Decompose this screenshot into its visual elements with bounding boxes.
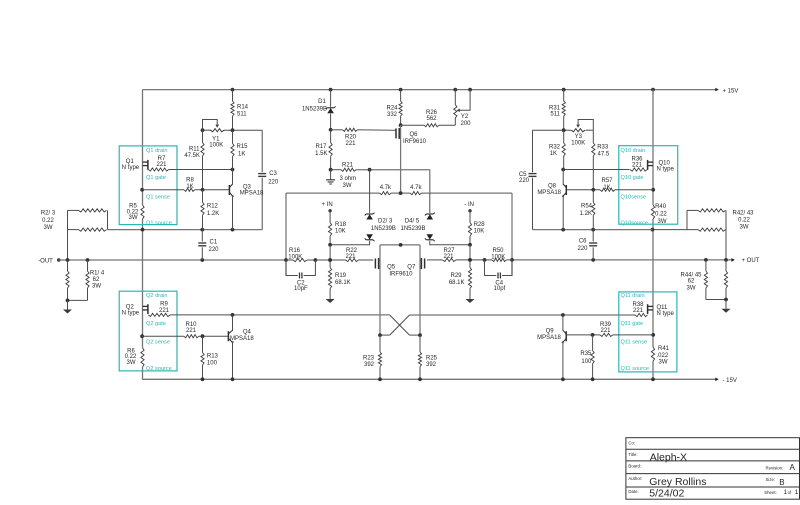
svg-text:R12: R12 <box>207 204 219 210</box>
resistor R20 <box>343 128 358 131</box>
label Q10 sense <box>621 194 647 200</box>
svg-text:Size:: Size: <box>766 477 776 482</box>
label R15 <box>237 144 249 157</box>
svg-text:D1: D1 <box>318 99 326 105</box>
svg-text:R42/ 43: R42/ 43 <box>732 210 754 216</box>
svg-text:221: 221 <box>633 308 644 314</box>
svg-text:68.1K: 68.1K <box>335 280 351 286</box>
svg-text:100: 100 <box>207 361 218 367</box>
transistor Q6 <box>396 125 401 193</box>
label 4.7k left <box>380 185 392 191</box>
label R9 <box>159 302 170 315</box>
svg-text:1K: 1K <box>186 184 193 190</box>
svg-text:R1/ 4: R1/ 4 <box>90 271 105 277</box>
node -15V label <box>723 378 737 384</box>
wire diff pair frame <box>380 243 420 335</box>
ground right output <box>722 309 731 313</box>
resistor R4 (R1/4 right) <box>86 260 89 300</box>
svg-text:R25: R25 <box>426 356 438 362</box>
svg-text:R13: R13 <box>207 354 219 360</box>
ground left output <box>63 310 72 314</box>
svg-text:221: 221 <box>345 141 356 147</box>
node +OUT <box>731 258 759 264</box>
svg-text:R39: R39 <box>600 322 612 328</box>
label R7 <box>156 156 167 168</box>
wire -15V rail <box>142 378 719 382</box>
resistor R57 <box>600 188 615 191</box>
svg-text:221: 221 <box>186 328 197 334</box>
svg-text:1N5239B: 1N5239B <box>400 226 425 232</box>
svg-text:R57: R57 <box>601 178 613 184</box>
label R16 <box>288 248 302 261</box>
label Q10 N type <box>657 161 675 173</box>
svg-text:R44/ 45: R44/ 45 <box>680 272 702 278</box>
resistor R42 (R42/43 top) <box>698 209 726 212</box>
svg-text:68.1K: 68.1K <box>449 280 465 286</box>
svg-text:1K: 1K <box>550 151 557 157</box>
svg-text:1N5239B: 1N5239B <box>371 226 396 232</box>
label R23 <box>363 356 375 368</box>
svg-text:1K: 1K <box>238 151 245 157</box>
resistor R28 <box>468 211 472 247</box>
resistor R6 <box>141 348 144 367</box>
transistor Q3 <box>229 170 234 230</box>
label D2/3 <box>371 218 396 232</box>
svg-text:Q1 source: Q1 source <box>146 220 172 226</box>
resistor R2 (R2/3 top) <box>79 209 107 212</box>
label Q1 N type <box>122 159 140 171</box>
svg-text:0.22: 0.22 <box>738 217 750 223</box>
svg-text:Q2 source: Q2 source <box>146 366 172 372</box>
svg-text:332: 332 <box>387 112 398 118</box>
label R12 <box>207 204 219 217</box>
svg-text:R24: R24 <box>386 106 398 112</box>
svg-text:1.5K: 1.5K <box>315 151 327 157</box>
label D1 <box>302 99 327 112</box>
label C3 <box>268 171 279 185</box>
title block title <box>650 451 687 463</box>
svg-text:Author:: Author: <box>628 476 642 481</box>
title block author <box>649 476 706 488</box>
svg-text:Q8: Q8 <box>548 184 557 190</box>
transistor Q10 <box>648 160 653 170</box>
label Q2 source <box>146 366 172 372</box>
svg-text:100K: 100K <box>288 254 302 260</box>
label R35 <box>580 351 592 365</box>
svg-text:R20: R20 <box>345 135 357 141</box>
svg-text:Title:: Title: <box>628 452 637 457</box>
label R39 <box>600 322 612 334</box>
wire Y3 line <box>533 128 594 132</box>
label Q10 source <box>621 220 648 226</box>
svg-text:1K: 1K <box>603 185 610 191</box>
svg-text:220: 220 <box>209 247 220 253</box>
svg-text:Q11 drain: Q11 drain <box>621 293 645 299</box>
wire R20 line <box>331 129 396 132</box>
label R27 <box>443 248 455 260</box>
label R8 <box>186 178 194 190</box>
transistor Q5 <box>375 258 380 269</box>
label D4/5 <box>400 218 425 232</box>
svg-text:Q11 gate: Q11 gate <box>621 321 644 327</box>
transistor Q7 <box>420 258 425 269</box>
svg-text:+ 15V: + 15V <box>723 88 739 94</box>
label R50 <box>491 248 505 261</box>
svg-text:-OUT: -OUT <box>38 258 53 264</box>
svg-text:Q2 sense: Q2 sense <box>146 340 170 346</box>
label R26 <box>426 110 438 122</box>
svg-text:R17: R17 <box>315 144 327 150</box>
svg-text:3W: 3W <box>740 225 749 231</box>
svg-text:10pF: 10pF <box>294 286 308 292</box>
wire sense line left <box>108 228 263 232</box>
svg-text:1.2K: 1.2K <box>207 211 219 217</box>
svg-text:511: 511 <box>237 112 247 118</box>
diode D4/5 <box>425 193 470 245</box>
wire left column drain/source vertical <box>142 90 144 380</box>
resistor R44 (R44/45 left) <box>704 260 707 300</box>
svg-text:R8: R8 <box>186 178 194 184</box>
wire R57 gate-sense <box>567 188 655 192</box>
resistor R54 <box>592 190 595 230</box>
transistor Q11 <box>648 304 653 314</box>
label Q1 gate <box>146 175 166 181</box>
wire R42/43 frame <box>651 210 727 260</box>
potentiometer Y1 <box>203 120 225 132</box>
svg-text:3W: 3W <box>659 360 668 366</box>
svg-text:10pf: 10pf <box>494 286 506 292</box>
resistor R10 <box>184 335 199 338</box>
label R19 <box>335 273 351 286</box>
resistor R7 <box>148 168 234 172</box>
svg-text:3W: 3W <box>129 215 138 221</box>
label Q11 gate <box>621 321 644 327</box>
label Q8 <box>537 184 561 196</box>
node +IN <box>322 202 333 212</box>
svg-text:100K: 100K <box>209 143 223 149</box>
resistor R25 <box>418 335 422 381</box>
resistor R1 (R1/4 left) <box>66 260 69 300</box>
label Q10 gate <box>621 175 644 181</box>
svg-text:R19: R19 <box>335 273 347 279</box>
label R42/43 <box>732 210 754 230</box>
svg-text:R29: R29 <box>450 273 462 279</box>
module box Q1 <box>119 146 177 225</box>
resistor R39 <box>600 333 613 336</box>
svg-text:R28: R28 <box>474 222 486 228</box>
svg-text:3W: 3W <box>343 183 352 189</box>
label Q2 drain <box>146 293 167 299</box>
svg-text:R23: R23 <box>363 356 375 362</box>
capacitor C5 <box>529 130 537 229</box>
svg-text:100: 100 <box>581 359 592 365</box>
svg-text:Q2 drain: Q2 drain <box>146 293 167 299</box>
transistor Q1 <box>143 160 148 170</box>
svg-text:4.7k: 4.7k <box>380 185 392 191</box>
resistor R11 <box>201 130 205 192</box>
svg-text:Board:: Board: <box>628 464 641 469</box>
label R10 <box>185 322 197 334</box>
resistor R31 <box>562 88 566 131</box>
resistor R12 <box>201 190 204 230</box>
svg-text:221: 221 <box>159 308 170 314</box>
svg-text:R41: R41 <box>658 346 670 352</box>
svg-text:R22: R22 <box>346 248 358 254</box>
svg-text:Q1 sense: Q1 sense <box>146 194 170 200</box>
label Q4 <box>230 329 254 341</box>
svg-text:N type: N type <box>657 167 675 173</box>
wire Y1 line <box>201 128 263 132</box>
resistor R13 <box>201 334 205 381</box>
title block size <box>779 478 784 487</box>
resistor R15 <box>231 130 234 169</box>
wire R21 line <box>331 168 430 193</box>
title block small labels <box>628 441 798 497</box>
wire feedback top line <box>286 191 512 195</box>
svg-text:221: 221 <box>345 254 356 260</box>
label R24 <box>386 106 398 118</box>
label Q11 N type <box>657 305 675 317</box>
svg-text:221: 221 <box>156 162 167 168</box>
svg-text:R27: R27 <box>443 248 455 254</box>
transistor Q2 <box>143 304 148 314</box>
label Q2 gate <box>146 321 166 327</box>
resistor R5 <box>141 205 144 219</box>
label R54 <box>580 204 593 217</box>
wire right feedback vertical <box>510 193 514 275</box>
label Y2 <box>460 114 471 127</box>
svg-text:47.5K: 47.5K <box>184 153 200 159</box>
svg-text:C6: C6 <box>579 239 587 245</box>
svg-text:4.7k: 4.7k <box>410 185 422 191</box>
wire R8 gate-sense <box>140 188 229 192</box>
resistor R36 <box>561 168 647 172</box>
svg-text:IRF9610: IRF9610 <box>403 139 427 145</box>
label C2 <box>294 280 308 292</box>
svg-text:47.5: 47.5 <box>598 152 610 158</box>
resistor R19 <box>328 245 332 299</box>
label Q9 <box>537 329 561 342</box>
svg-text:221: 221 <box>600 328 611 334</box>
svg-text:MPSA18: MPSA18 <box>230 336 254 342</box>
svg-text:R40: R40 <box>655 204 667 210</box>
wire right column drain/source vertical <box>651 88 655 382</box>
svg-text:MPSA18: MPSA18 <box>240 191 264 197</box>
transistor Q8 <box>562 170 567 230</box>
title block date <box>649 487 684 499</box>
ground bias <box>326 170 335 184</box>
wire +15V rail <box>143 88 719 92</box>
svg-text:10K: 10K <box>335 229 346 235</box>
resistor R17 <box>329 128 333 172</box>
svg-text:Q1 drain: Q1 drain <box>146 148 167 154</box>
resistor R35 <box>591 333 595 381</box>
svg-text:Q3: Q3 <box>243 184 252 190</box>
label C6 <box>577 239 588 252</box>
resistor R45 (R44/45 right) <box>724 260 727 300</box>
resistor R21 <box>341 168 356 171</box>
label Q5 Q7 <box>387 265 416 278</box>
label R20 <box>345 135 357 148</box>
title block revision <box>790 463 796 472</box>
resistor R51 4.7k left <box>380 192 391 195</box>
resistor R52 4.7k right <box>410 192 421 195</box>
label Q10 drain <box>621 148 646 154</box>
wire -OUT to gate <box>315 258 345 262</box>
svg-text:3W: 3W <box>687 285 696 291</box>
label R13 <box>207 354 219 367</box>
label C1 <box>209 239 220 253</box>
svg-text:Q5: Q5 <box>387 265 396 271</box>
label R41 <box>657 346 670 366</box>
svg-text:3W: 3W <box>44 225 53 231</box>
svg-text:R50: R50 <box>492 248 504 254</box>
svg-text:1.2K: 1.2K <box>580 211 592 217</box>
svg-text:Co:: Co: <box>628 441 635 446</box>
label R40 <box>655 204 667 225</box>
label Q6 <box>403 132 427 145</box>
label Q11 sense <box>621 340 648 346</box>
svg-text:220: 220 <box>268 179 279 185</box>
svg-text:D2/ 3: D2/ 3 <box>378 218 393 224</box>
label Y1 <box>209 136 223 148</box>
svg-text:R26: R26 <box>426 110 438 116</box>
svg-text:1: 1 <box>795 489 799 496</box>
svg-text:Date:: Date: <box>628 489 638 494</box>
svg-text:A: A <box>790 463 796 472</box>
label R6 <box>125 348 137 366</box>
label Q1 drain <box>146 148 167 154</box>
resistor R9 <box>148 313 389 316</box>
label Q1 sense <box>146 194 170 200</box>
svg-text:R33: R33 <box>597 145 609 151</box>
svg-text:Y2: Y2 <box>461 114 469 120</box>
ground R19 <box>326 299 335 303</box>
label R44/45 <box>680 272 702 291</box>
resistor R40 <box>651 205 654 219</box>
resistor R18 <box>328 211 332 247</box>
resistor R33 <box>591 130 595 192</box>
svg-text:Revision:: Revision: <box>766 466 784 471</box>
svg-text:62: 62 <box>688 279 695 285</box>
label R31 <box>549 106 561 118</box>
svg-text:221: 221 <box>443 254 454 260</box>
svg-text:R10: R10 <box>185 322 197 328</box>
wire R10 sense <box>140 334 228 338</box>
svg-text:D4/ 5: D4/ 5 <box>405 218 420 224</box>
svg-text:392: 392 <box>426 362 437 368</box>
label R14 <box>237 105 249 118</box>
label Q11 drain <box>621 293 645 299</box>
svg-text:Q10source: Q10source <box>621 220 648 226</box>
label R28 <box>474 222 486 235</box>
wire +OUT from gate <box>427 258 485 262</box>
svg-text:.022: .022 <box>657 353 669 359</box>
label Q2 N type <box>122 305 140 317</box>
svg-text:+ OUT: + OUT <box>742 258 760 264</box>
svg-text:R18: R18 <box>335 222 347 228</box>
resistor R32 <box>562 130 565 169</box>
svg-text:Q10 gate: Q10 gate <box>621 175 644 181</box>
node -IN <box>464 202 474 212</box>
svg-text:R2/ 3: R2/ 3 <box>41 211 56 217</box>
resistor R22 <box>346 258 374 261</box>
svg-text:100K: 100K <box>571 140 585 146</box>
resistor R14 <box>231 88 235 131</box>
svg-text:MPSA18: MPSA18 <box>537 335 561 341</box>
capacitor C4 <box>485 260 513 279</box>
wire -OUT line <box>59 258 286 262</box>
svg-text:R16: R16 <box>289 248 301 254</box>
svg-text:221: 221 <box>632 162 643 168</box>
svg-text:R15: R15 <box>237 144 249 150</box>
svg-text:- IN: - IN <box>464 202 474 208</box>
label R57 <box>601 178 613 191</box>
label Q2 sense <box>146 340 170 346</box>
capacitor C1 <box>198 230 206 260</box>
resistor R23 <box>378 335 382 381</box>
svg-text:- 15V: - 15V <box>723 378 737 384</box>
svg-text:3 ohm: 3 ohm <box>339 176 356 182</box>
module box Q10 <box>619 146 678 225</box>
svg-text:Q9: Q9 <box>546 329 555 335</box>
resistor R38 <box>410 313 648 316</box>
node +15V label <box>723 88 739 94</box>
label R21 <box>339 162 356 189</box>
resistor R41 <box>651 347 654 361</box>
diode D1 <box>326 88 336 130</box>
svg-text:R35: R35 <box>580 351 592 357</box>
svg-text:Aleph-X: Aleph-X <box>650 451 687 463</box>
label R33 <box>597 145 610 158</box>
label R5 <box>127 204 139 222</box>
svg-text:3W: 3W <box>658 219 667 225</box>
label R18 <box>335 222 347 235</box>
label R32 <box>549 145 561 158</box>
svg-text:+ IN: + IN <box>322 202 333 208</box>
svg-text:R14: R14 <box>237 105 249 111</box>
resistor R50 <box>483 258 512 262</box>
label R38 <box>632 302 644 314</box>
svg-text:C3: C3 <box>269 171 277 177</box>
svg-text:200: 200 <box>460 121 471 127</box>
svg-text:Q6: Q6 <box>410 132 419 138</box>
svg-text:MPSA18: MPSA18 <box>537 190 561 196</box>
svg-text:Q1 gate: Q1 gate <box>146 175 166 181</box>
label Q11 source <box>621 366 650 372</box>
svg-text:IRF9610: IRF9610 <box>389 272 413 278</box>
svg-text:Q11 source: Q11 source <box>621 366 650 372</box>
wire R26 line <box>401 124 456 126</box>
svg-text:Q2 gate: Q2 gate <box>146 321 166 327</box>
capacitor C2 <box>286 260 315 279</box>
wire R2/3 frame <box>68 210 108 260</box>
svg-text:100K: 100K <box>491 254 505 260</box>
wire +OUT line <box>512 258 732 262</box>
svg-text:Q10sense: Q10sense <box>621 194 647 200</box>
label R1/4 <box>90 271 105 290</box>
svg-text:3W: 3W <box>92 284 101 290</box>
svg-text:Q4: Q4 <box>243 329 252 335</box>
node -OUT <box>38 258 60 264</box>
svg-text:10K: 10K <box>474 229 485 235</box>
svg-text:R11: R11 <box>189 147 200 153</box>
svg-text:Sheet:: Sheet: <box>764 490 776 495</box>
svg-text:N type: N type <box>122 311 140 317</box>
svg-text:Q7: Q7 <box>407 265 416 271</box>
svg-text:Y3: Y3 <box>575 134 583 140</box>
svg-text:220: 220 <box>577 246 588 252</box>
